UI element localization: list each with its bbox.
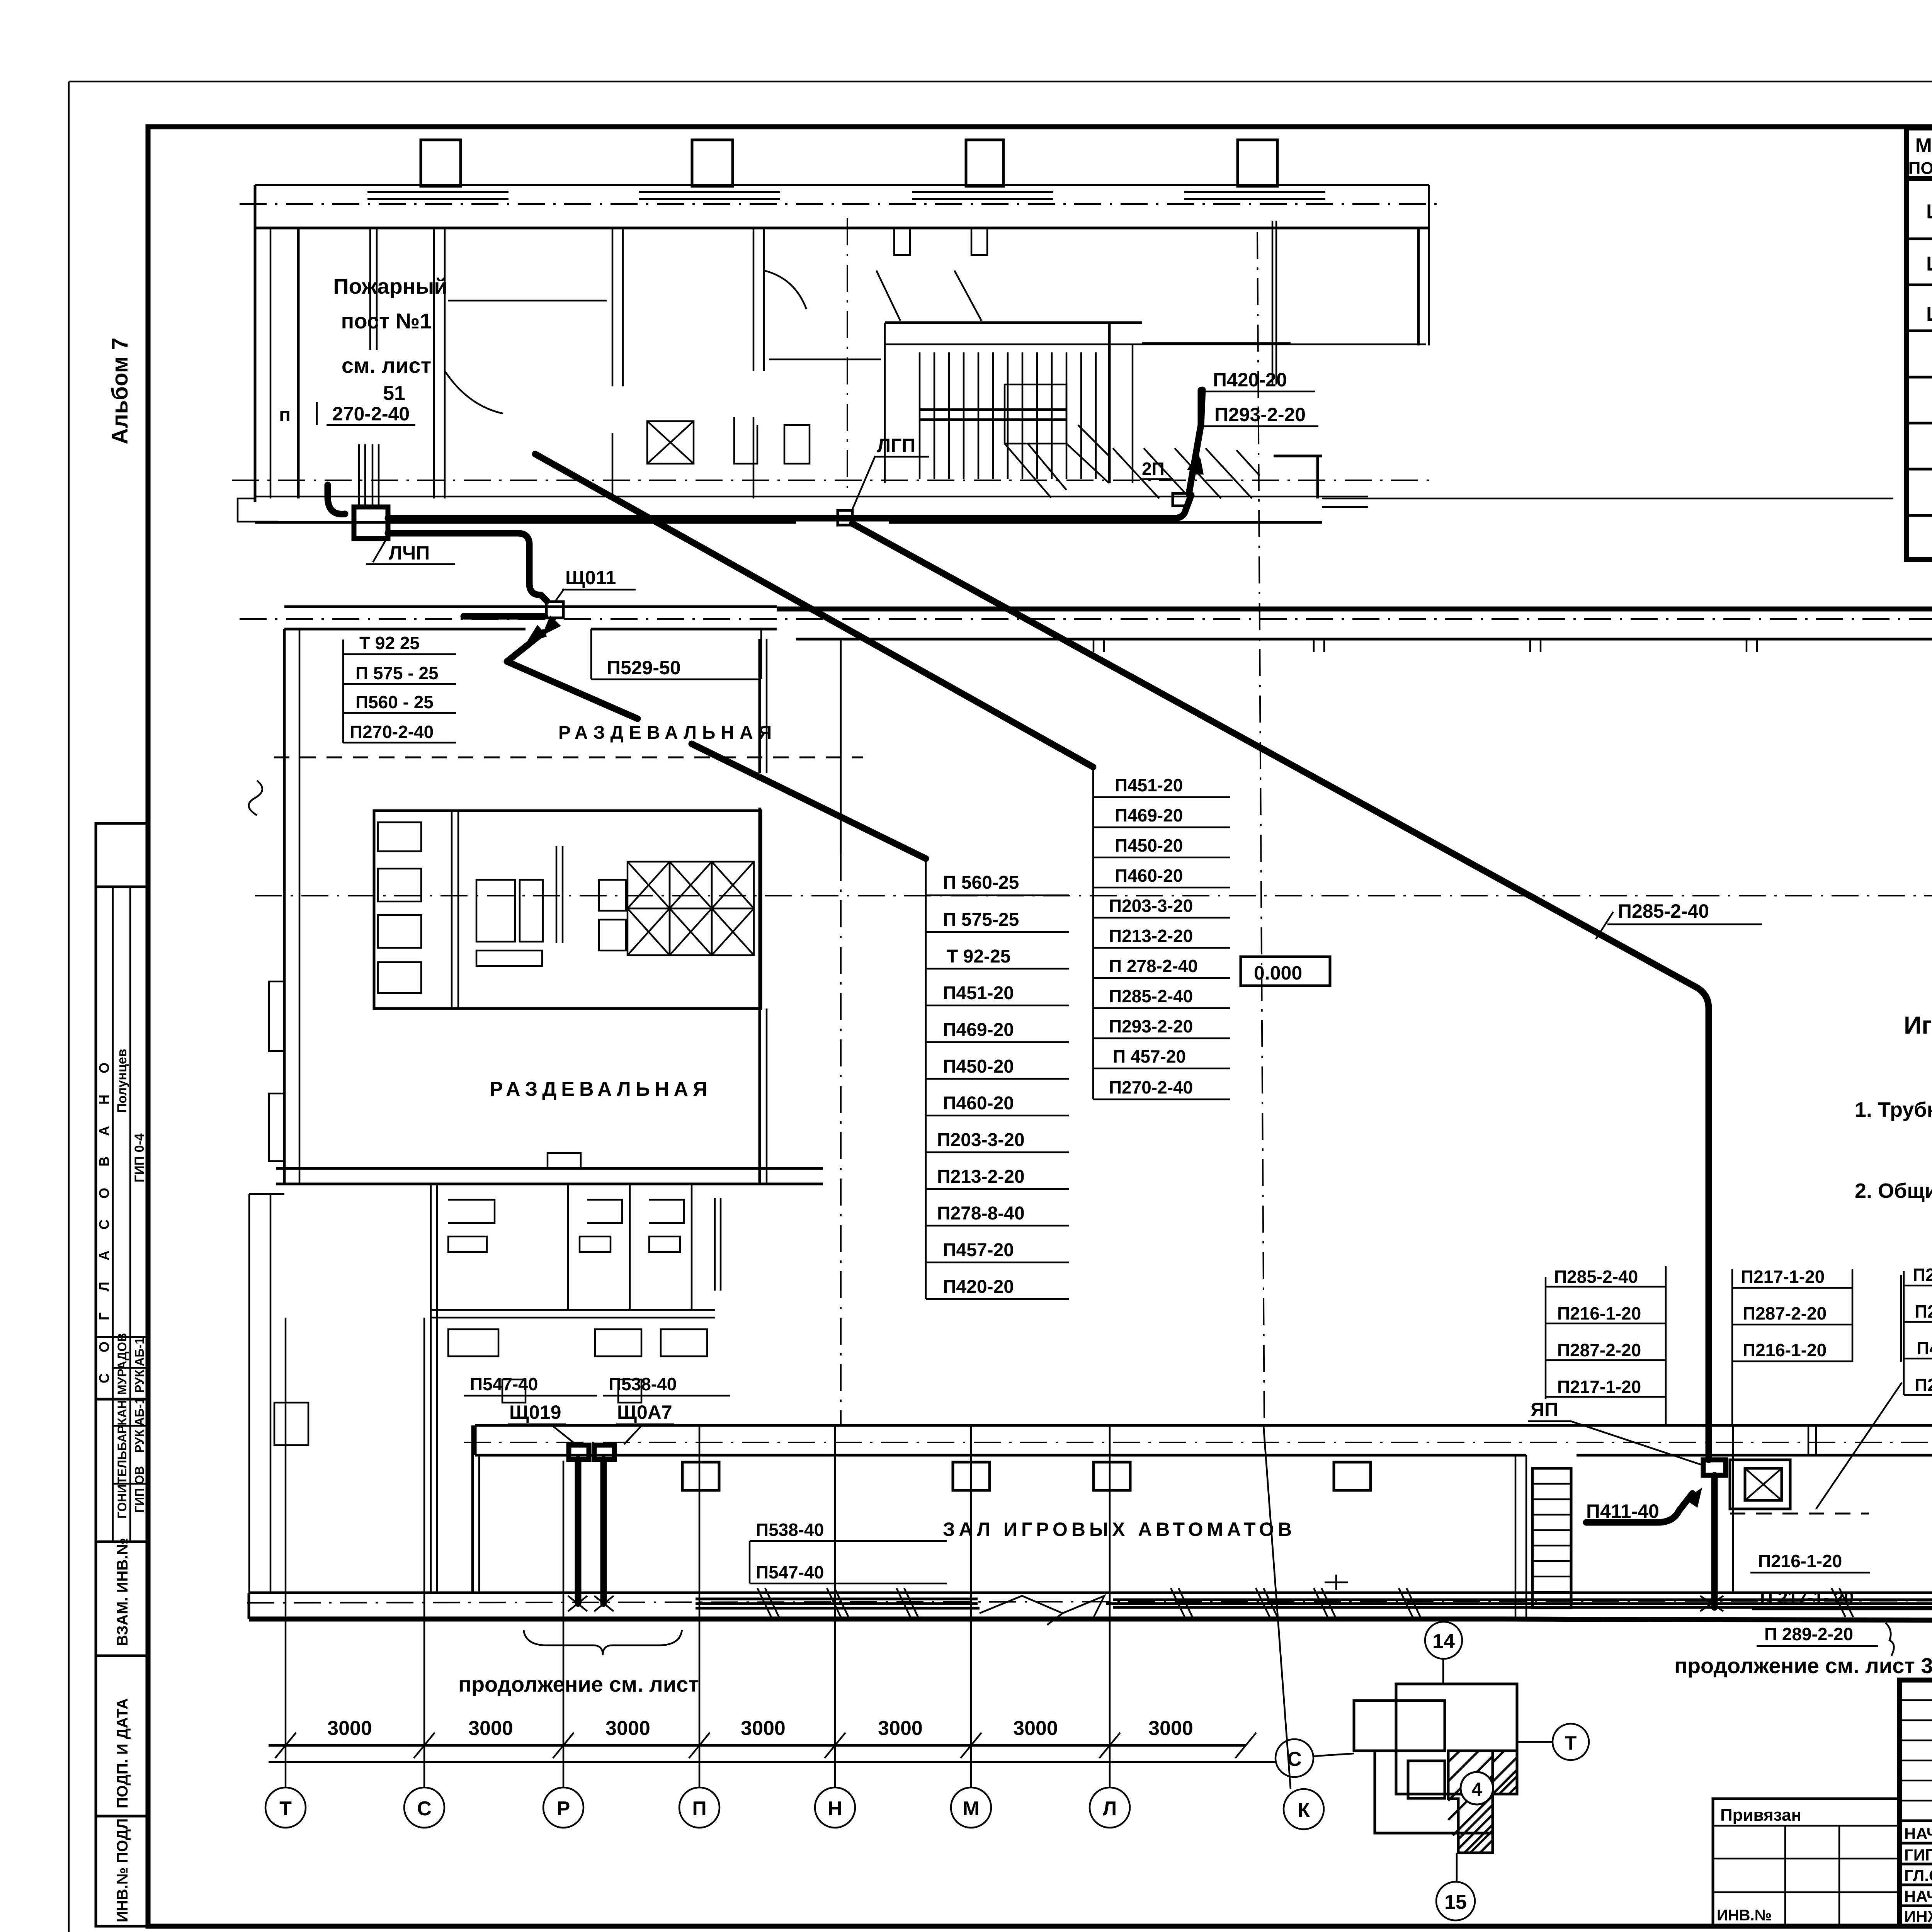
svg-text:продолжение см. лист 34: продолжение см. лист 34 <box>1674 1653 1932 1678</box>
svg-text:Н: Н <box>828 1798 842 1820</box>
svg-text:14: 14 <box>1432 1630 1455 1653</box>
svg-text:2. Общие указания см.: 2. Общие указания см. лист 1 <box>1855 1179 1932 1202</box>
svg-text:П293-2-20: П293-2-20 <box>1214 404 1306 425</box>
svg-text:П547-40: П547-40 <box>756 1562 824 1582</box>
svg-text:ВЗАМ. ИНВ.№: ВЗАМ. ИНВ.№ <box>114 1538 131 1646</box>
svg-text:см. лист: см. лист <box>342 353 431 378</box>
svg-text:Полунцев: Полунцев <box>115 1049 129 1113</box>
svg-text:Щ047: Щ047 <box>1926 303 1932 325</box>
svg-text:П203-3-20: П203-3-20 <box>937 1130 1025 1150</box>
svg-text:Т: Т <box>1565 1732 1577 1754</box>
svg-text:4: 4 <box>1471 1779 1482 1800</box>
svg-text:Альбом 7: Альбом 7 <box>107 338 133 444</box>
svg-text:Т 92-25: Т 92-25 <box>947 946 1010 967</box>
svg-text:РАЗДЕВАЛЬНАЯ: РАЗДЕВАЛЬНАЯ <box>558 723 777 743</box>
svg-text:П289-2-20: П289-2-20 <box>1915 1375 1932 1395</box>
svg-text:П213-2-20: П213-2-20 <box>937 1167 1025 1187</box>
svg-text:270-2-40: 270-2-40 <box>332 403 410 425</box>
svg-text:ГИП: ГИП <box>1904 1846 1932 1864</box>
svg-text:П 289-2-20: П 289-2-20 <box>1764 1624 1853 1644</box>
svg-text:П411-40: П411-40 <box>1586 1500 1659 1522</box>
svg-text:Пожарный: Пожарный <box>333 274 447 298</box>
svg-text:СОГЛАСОВАНО: СОГЛАСОВАНО <box>96 1041 112 1383</box>
svg-text:П287-2-20: П287-2-20 <box>1743 1303 1827 1323</box>
svg-text:ПОДП. И ДАТА: ПОДП. И ДАТА <box>114 1698 131 1808</box>
svg-text:С: С <box>417 1798 432 1820</box>
svg-text:П529-50: П529-50 <box>607 657 681 679</box>
svg-text:ГОНИТЕЛЬ: ГОНИТЕЛЬ <box>115 1451 129 1519</box>
svg-text:3000: 3000 <box>878 1717 923 1740</box>
svg-text:П469-20: П469-20 <box>943 1020 1014 1040</box>
svg-text:П270-2-40: П270-2-40 <box>350 722 434 742</box>
svg-text:ЯП: ЯП <box>1531 1399 1558 1420</box>
svg-text:Щ019: Щ019 <box>509 1401 561 1423</box>
svg-text:П216-1-20: П216-1-20 <box>1758 1551 1842 1571</box>
svg-text:П217-1-20: П217-1-20 <box>1741 1267 1825 1287</box>
svg-text:3000: 3000 <box>605 1717 650 1740</box>
svg-text:М: М <box>963 1798 979 1820</box>
svg-text:3000: 3000 <box>327 1717 372 1740</box>
svg-text:П285-2-40: П285-2-40 <box>1554 1267 1638 1287</box>
svg-text:ГЛ.СПЕЦ: ГЛ.СПЕЦ <box>1904 1866 1932 1884</box>
svg-text:П451-20: П451-20 <box>1115 775 1183 795</box>
svg-text:П216-1-20: П216-1-20 <box>1743 1340 1827 1360</box>
svg-text:15: 15 <box>1444 1891 1467 1913</box>
svg-text:ИНВ.№: ИНВ.№ <box>1717 1907 1772 1924</box>
svg-text:П: П <box>692 1798 706 1820</box>
svg-text:Щ0А7: Щ0А7 <box>617 1401 672 1423</box>
svg-text:2П: 2П <box>1142 459 1165 479</box>
svg-text:К: К <box>1298 1799 1310 1821</box>
svg-text:РАЗДЕВАЛЬНАЯ: РАЗДЕВАЛЬНАЯ <box>490 1078 712 1100</box>
svg-text:П469-20: П469-20 <box>1115 805 1183 825</box>
svg-text:П285-2-40: П285-2-40 <box>1618 900 1709 922</box>
svg-text:3000: 3000 <box>1148 1717 1193 1740</box>
svg-text:РУК АБ-1: РУК АБ-1 <box>133 1397 146 1453</box>
svg-text:Т: Т <box>279 1798 292 1820</box>
svg-text:Привязан: Привязан <box>1720 1806 1801 1825</box>
svg-text:Игровой: Игровой <box>1904 1011 1932 1039</box>
svg-text:ГИП 0-4: ГИП 0-4 <box>132 1133 147 1182</box>
svg-text:ГИП ОВ: ГИП ОВ <box>133 1466 146 1513</box>
svg-text:ПОЗИЦИЯ: ПОЗИЦИЯ <box>1908 159 1932 178</box>
svg-text:П 217-1- 20: П 217-1- 20 <box>1760 1588 1854 1608</box>
svg-text:П411-40: П411-40 <box>1917 1338 1932 1358</box>
svg-text:П293-2-20: П293-2-20 <box>1109 1016 1193 1036</box>
svg-text:ИНЖЕН.: ИНЖЕН. <box>1904 1907 1932 1925</box>
svg-text:ЛГП: ЛГП <box>877 435 915 456</box>
svg-text:ЛЧП: ЛЧП <box>389 542 430 564</box>
svg-text:П 560-25: П 560-25 <box>943 872 1019 893</box>
svg-text:ИНВ.№ ПОДЛ: ИНВ.№ ПОДЛ <box>114 1818 131 1922</box>
svg-text:П538-40: П538-40 <box>609 1374 677 1394</box>
svg-text:БАРКАН: БАРКАН <box>115 1400 129 1451</box>
svg-text:П216-1-20: П216-1-20 <box>1557 1303 1641 1323</box>
svg-text:П278-8-40: П278-8-40 <box>937 1203 1025 1224</box>
svg-text:П270-2-40: П270-2-40 <box>1109 1077 1193 1097</box>
svg-text:П217-1-20: П217-1-20 <box>1557 1377 1641 1397</box>
svg-text:П450-20: П450-20 <box>1115 835 1183 855</box>
svg-text:Р: Р <box>557 1798 570 1820</box>
svg-text:Щ011: Щ011 <box>1926 201 1932 223</box>
svg-text:РУК АБ-1: РУК АБ-1 <box>133 1337 146 1393</box>
svg-text:П451-20: П451-20 <box>943 983 1014 1003</box>
svg-text:П213-2-20: П213-2-20 <box>1109 926 1193 946</box>
svg-text:п: п <box>279 404 291 425</box>
svg-text:П203-3-20: П203-3-20 <box>1109 896 1193 916</box>
svg-text:Т 92 25: Т 92 25 <box>359 633 420 653</box>
svg-text:П420-20: П420-20 <box>1213 369 1287 391</box>
svg-text:51: 51 <box>383 382 405 405</box>
svg-text:3000: 3000 <box>1013 1717 1058 1740</box>
svg-text:1. Трубно- кабельный журнал: 1. Трубно- кабельный журнал см. листы <box>1855 1098 1932 1121</box>
svg-text:П547-40: П547-40 <box>470 1374 538 1394</box>
svg-text:П450-20: П450-20 <box>943 1056 1014 1077</box>
svg-text:П285-2-40: П285-2-40 <box>1109 986 1193 1006</box>
svg-text:П460-20: П460-20 <box>1115 866 1183 886</box>
svg-text:3000: 3000 <box>468 1717 513 1740</box>
svg-text:продолжение см. лист: продолжение см. лист <box>458 1672 699 1696</box>
svg-text:С: С <box>1287 1748 1302 1770</box>
svg-text:П287-2-20: П287-2-20 <box>1915 1301 1932 1321</box>
svg-text:Щ019: Щ019 <box>1926 253 1932 275</box>
svg-text:3000: 3000 <box>741 1717 786 1740</box>
svg-text:П460-20: П460-20 <box>943 1093 1014 1114</box>
svg-text:П 575-25: П 575-25 <box>943 910 1019 930</box>
svg-text:П538-40: П538-40 <box>756 1520 824 1540</box>
svg-text:НАЧ.ГР-: НАЧ.ГР- <box>1904 1887 1932 1905</box>
svg-text:МАРКА: МАРКА <box>1915 134 1932 157</box>
svg-text:П560 - 25: П560 - 25 <box>355 692 434 712</box>
svg-text:Л: Л <box>1103 1798 1117 1820</box>
svg-text:П 457-20: П 457-20 <box>1113 1046 1186 1066</box>
svg-text:П457-20: П457-20 <box>943 1240 1014 1260</box>
svg-text:ЗАЛ ИГРОВЫХ АВТОМАТОВ: ЗАЛ ИГРОВЫХ АВТОМАТОВ <box>943 1519 1296 1540</box>
svg-text:П 278-2-40: П 278-2-40 <box>1109 956 1198 976</box>
svg-text:МУРАДОВ: МУРАДОВ <box>115 1333 129 1395</box>
svg-text:Щ011: Щ011 <box>565 567 616 588</box>
svg-text:П 575 - 25: П 575 - 25 <box>355 663 439 683</box>
svg-text:П287-2-20: П287-2-20 <box>1557 1340 1641 1360</box>
svg-text:НАЧ.ОТД: НАЧ.ОТД <box>1904 1825 1932 1843</box>
svg-text:пост №1: пост №1 <box>341 309 432 333</box>
svg-text:П285-2-40: П285-2-40 <box>1913 1265 1932 1285</box>
svg-text:0.000: 0.000 <box>1254 962 1302 984</box>
svg-text:П420-20: П420-20 <box>943 1277 1014 1297</box>
